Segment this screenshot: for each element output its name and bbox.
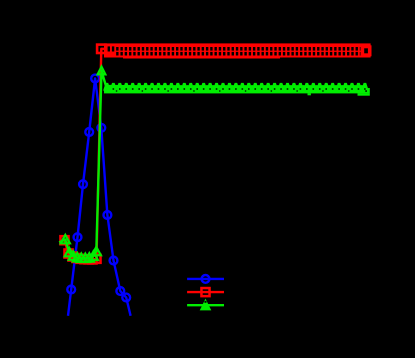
- red last plateau point big square marker: [364, 48, 368, 53]
- legend: red entry (line + square): [187, 288, 224, 296]
- red plateau band of overlapping square markers: [104, 43, 371, 58]
- green cluster triangle markers: [61, 235, 101, 262]
- legend: blue entry (line + circle): [187, 275, 224, 283]
- blue series circle markers: [67, 75, 130, 302]
- red series data line (dip, spike, plateau): [65, 49, 367, 260]
- red first plateau point big square marker: [97, 45, 105, 53]
- red cluster square markers: [60, 236, 100, 263]
- blue series data line: [68, 79, 131, 316]
- green series data line (dip, spike, plateau): [59, 71, 366, 258]
- green plateau band of overlapping triangle markers: [103, 83, 370, 96]
- green peak triangle marker: [98, 67, 106, 75]
- legend: green entry (line + triangle): [187, 299, 224, 311]
